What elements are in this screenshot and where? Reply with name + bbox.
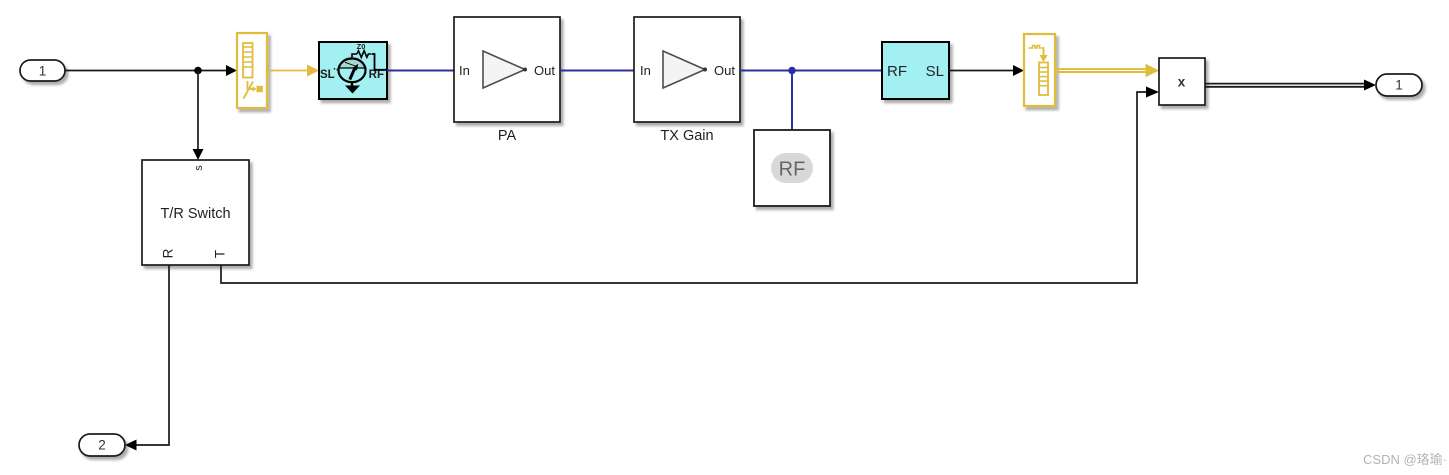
block product x xyxy=(1159,58,1205,105)
svg-text:Out: Out xyxy=(714,63,735,78)
svg-text:TX Gain: TX Gain xyxy=(660,128,713,144)
block SL-to-RF adaptor (yellow) xyxy=(237,33,267,108)
svg-text:SL: SL xyxy=(320,69,335,81)
svg-text:PA: PA xyxy=(498,128,517,144)
block RF Outport (cyan) xyxy=(882,42,949,99)
outport 1 xyxy=(1376,74,1422,96)
svg-text:T/R Switch: T/R Switch xyxy=(160,206,230,222)
block RF configuration xyxy=(754,130,830,206)
svg-text:RF: RF xyxy=(779,159,806,181)
block TX Gain xyxy=(634,17,740,122)
wire inport1 to SL-RF adaptor xyxy=(65,65,237,76)
wire RF inport to PA (blue) xyxy=(387,70,454,72)
block RF-to-SL adaptor (yellow) xyxy=(1024,34,1055,106)
outport 2 xyxy=(79,434,125,456)
inport 1 xyxy=(20,60,65,81)
svg-text:T: T xyxy=(213,250,228,258)
wire junction down to T/R Switch xyxy=(193,71,204,161)
svg-text:Z0: Z0 xyxy=(357,42,366,51)
wire PA to TX Gain (blue) xyxy=(560,70,634,72)
block PA xyxy=(454,17,560,122)
svg-text:x: x xyxy=(1178,75,1186,90)
wire R port down-left to outport 2 xyxy=(125,265,169,451)
svg-text:In: In xyxy=(459,63,470,78)
node junction on input wire xyxy=(194,67,202,75)
svg-text:RF: RF xyxy=(887,63,907,80)
node blue junction xyxy=(788,67,796,75)
block T/R Switch xyxy=(142,160,249,265)
wire TX Gain to RF outport (blue) xyxy=(740,70,882,72)
block RF Inport (cyan) xyxy=(319,42,387,99)
wire yellow adaptor to product (double yellow) xyxy=(1055,64,1159,77)
wire yellow adaptor to RF inport xyxy=(267,65,319,77)
wire junction down to RF config block (blue) xyxy=(791,71,793,131)
wire product to outport 1 (double black) xyxy=(1205,80,1376,91)
svg-text:RF: RF xyxy=(369,69,384,81)
svg-text:s: s xyxy=(193,165,205,171)
svg-text:SL: SL xyxy=(926,63,944,80)
wire T port to product second input xyxy=(221,87,1159,284)
svg-text:In: In xyxy=(640,63,651,78)
svg-text:R: R xyxy=(161,248,176,258)
svg-text:1: 1 xyxy=(39,64,47,79)
wire RF outport to RF-SL adaptor (black) xyxy=(949,65,1024,76)
svg-text:CSDN @珞瑜·: CSDN @珞瑜· xyxy=(1363,452,1447,467)
svg-text:2: 2 xyxy=(98,438,106,453)
svg-text:1: 1 xyxy=(1395,78,1403,93)
svg-text:Out: Out xyxy=(534,63,555,78)
